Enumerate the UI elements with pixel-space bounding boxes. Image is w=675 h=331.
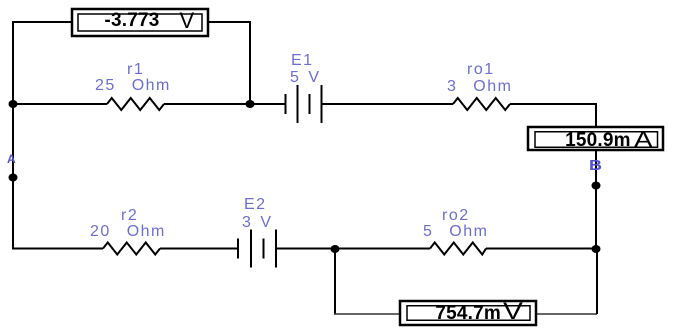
label 5 V bbox=[290, 71, 321, 85]
wire voltmeter V2 left lead bbox=[334, 313, 400, 315]
wire r2 to battery E2 bbox=[160, 248, 238, 250]
label 3 Ohm bbox=[447, 80, 512, 94]
wire ro1 to right corner and down to ammeter bbox=[510, 103, 597, 127]
junction node dot top-middle bbox=[246, 100, 255, 108]
voltmeter V1 reading bbox=[104, 11, 159, 30]
wire ro2 to right junction bbox=[486, 248, 596, 250]
resistor r1 bbox=[107, 98, 164, 110]
resistor ro1 bbox=[453, 98, 510, 110]
ammeter A1 unit A bbox=[634, 131, 653, 148]
junction node dot left-top bbox=[9, 100, 18, 108]
label 25 Ohm bbox=[95, 79, 171, 93]
resistor r2 bbox=[103, 243, 160, 255]
wire branch down from junction to voltmeter V2 bbox=[334, 249, 336, 315]
wire top-left horizontal to voltmeter V1 bbox=[12, 21, 72, 23]
label ro2 bbox=[442, 209, 470, 223]
label ro1 bbox=[467, 63, 495, 77]
wire ammeter down to node B junction bbox=[595, 150, 597, 250]
voltmeter V1 box bbox=[72, 9, 208, 36]
wire left vertical bus bbox=[12, 21, 14, 250]
wire bottom row left segment bbox=[12, 248, 103, 250]
node label A bbox=[7, 155, 16, 164]
ammeter A1 box bbox=[528, 127, 663, 150]
node label B bbox=[589, 160, 602, 171]
label 20 Ohm bbox=[90, 225, 166, 239]
label 5 Ohm bbox=[423, 225, 488, 239]
wire battery E2 through junction to resistor ro2 bbox=[276, 248, 430, 250]
wire r1 to battery E1 bbox=[164, 103, 286, 105]
junction node dot bottom-right bbox=[592, 245, 601, 253]
battery E1 bbox=[286, 85, 322, 123]
wire main top row left segment bbox=[12, 103, 107, 105]
wire voltmeter V2 right lead and up to junction bbox=[536, 313, 597, 315]
label E1 bbox=[291, 54, 314, 68]
voltmeter V2 box bbox=[400, 301, 536, 325]
battery E2 bbox=[238, 230, 276, 268]
voltmeter V2 reading bbox=[435, 304, 501, 323]
label E2 bbox=[244, 198, 267, 212]
ammeter A1 reading bbox=[565, 131, 631, 150]
node B dot bbox=[592, 182, 601, 190]
junction node dot bottom-middle bbox=[331, 245, 340, 253]
voltmeter V1 unit V bbox=[180, 12, 195, 29]
wire battery E1 to resistor ro1 bbox=[322, 103, 454, 105]
wire branch up to right junction bbox=[596, 249, 598, 315]
node A dot bbox=[9, 174, 18, 182]
label 3 V bbox=[242, 216, 273, 230]
resistor ro2 bbox=[430, 243, 486, 255]
label r1 bbox=[127, 63, 144, 77]
label r2 bbox=[121, 209, 138, 223]
voltmeter V2 unit V bbox=[503, 303, 523, 320]
wire voltmeter V1 right to corner and down to node bbox=[209, 22, 250, 104]
